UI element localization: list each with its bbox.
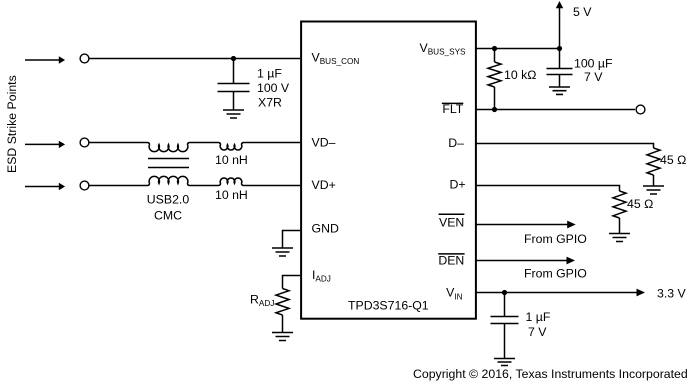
- inductor: CMC winding top: [147, 143, 190, 152]
- wire: R2 lower lead: [653, 175, 655, 186]
- svg-text:From GPIO: From GPIO: [524, 232, 587, 246]
- svg-text:100 V: 100 V: [257, 81, 290, 95]
- capacitor C3 1uF 7V: [491, 317, 519, 324]
- arrow: ESD strike arrow 2: [25, 141, 65, 148]
- node: strike point circle 1: [80, 54, 89, 63]
- wire: C3 upper lead: [504, 293, 506, 317]
- wire: L1 to VD- pin: [244, 142, 300, 144]
- wire: D+ line: [476, 186, 620, 192]
- svg-text:FLT: FLT: [442, 102, 463, 116]
- junction: C1 tap on VBUS_CON: [231, 56, 236, 61]
- svg-text:10 kΩ: 10 kΩ: [504, 68, 536, 82]
- ground: below C3: [494, 359, 515, 366]
- ground: below C2: [549, 87, 570, 94]
- arrow: ESD strike arrow 3: [25, 183, 65, 190]
- node: strike point circle 2: [80, 138, 89, 147]
- ground: below R3: [609, 234, 630, 242]
- arrow: VEN from GPIO: [476, 221, 576, 229]
- wire: VD- to CMC: [90, 142, 148, 144]
- svg-text:VD–: VD–: [312, 136, 336, 150]
- wire: C2 lower lead: [559, 75, 561, 88]
- svg-text:CMC: CMC: [154, 209, 182, 223]
- wire: D- line: [476, 144, 654, 149]
- svg-text:DEN: DEN: [438, 253, 464, 267]
- svg-text:GND: GND: [312, 222, 339, 236]
- wire+arrow: VIN to 3.3V: [476, 289, 645, 297]
- svg-text:D–: D–: [448, 136, 464, 150]
- svg-text:D+: D+: [449, 177, 465, 191]
- svg-text:10 nH: 10 nH: [215, 153, 248, 167]
- resistor R3 45 Ohm: [613, 191, 626, 218]
- svg-text:45 Ω: 45 Ω: [660, 153, 686, 167]
- wire: FLT line: [476, 109, 635, 111]
- wire: C2 upper lead: [559, 49, 561, 69]
- resistor R2 45 Ohm: [647, 148, 660, 175]
- svg-text:Copyright © 2016, Texas Instru: Copyright © 2016, Texas Instruments Inco…: [413, 367, 688, 381]
- inductor: CMC winding bottom: [147, 176, 190, 185]
- wire: IADJ pin lead: [283, 276, 301, 289]
- arrow: DEN from GPIO: [476, 257, 575, 265]
- svg-text:USB2.0: USB2.0: [147, 193, 190, 207]
- svg-text:100 µF: 100 µF: [574, 57, 613, 71]
- wire: CMC to L2: [190, 185, 218, 187]
- svg-text:X7R: X7R: [258, 96, 282, 110]
- wire: R1 to FLT line: [494, 87, 496, 110]
- wire: CMC to L1: [190, 142, 218, 144]
- svg-text:TPD3S716-Q1: TPD3S716-Q1: [348, 299, 429, 313]
- svg-text:1 µF: 1 µF: [257, 67, 282, 81]
- svg-text:45 Ω: 45 Ω: [627, 197, 653, 211]
- ground: below RADJ: [272, 333, 293, 341]
- node: FLT output circle: [636, 105, 645, 114]
- junction: 5V/C2 tap: [557, 46, 562, 51]
- svg-text:VEN: VEN: [439, 216, 464, 230]
- arrow: ESD strike arrow 1: [25, 56, 65, 63]
- ground: below R2: [643, 186, 664, 194]
- power: 5 V arrow: [556, 1, 563, 49]
- junction: R1 top tap: [492, 46, 497, 51]
- junction: R1 bottom on FLT: [492, 107, 497, 112]
- svg-text:10 nH: 10 nH: [215, 188, 248, 202]
- wire: VBUS_SYS line: [476, 48, 560, 50]
- ground: below C1: [223, 110, 244, 118]
- inductor L1 10 nH: [218, 143, 244, 150]
- op-amp/IC U1 TPD3S716-Q1 box: [301, 22, 476, 319]
- wire: L2 to VD+ pin: [244, 185, 300, 187]
- junction: C3 tap on VIN: [502, 290, 507, 295]
- inductor L2 10 nH: [218, 178, 244, 185]
- svg-text:From GPIO: From GPIO: [524, 267, 587, 281]
- wire: VD+ to CMC: [90, 185, 148, 187]
- wire: R1 body lead: [494, 49, 496, 63]
- wire: R3 lower lead: [619, 218, 621, 234]
- wire: C1 lower lead: [233, 92, 235, 111]
- svg-text:7 V: 7 V: [528, 325, 547, 339]
- svg-text:5 V: 5 V: [573, 5, 592, 19]
- capacitor C1 1uF 100V X7R: [218, 84, 250, 92]
- svg-text:1 µF: 1 µF: [526, 310, 551, 324]
- svg-text:ESD Strike Points: ESD Strike Points: [5, 75, 19, 173]
- resistor R1 10 kOhm: [488, 62, 501, 87]
- resistor RADJ: [276, 289, 289, 316]
- wire: GND pin lead: [283, 231, 301, 249]
- node: strike point circle 3: [80, 181, 89, 190]
- capacitor C2 100uF 7V: [547, 69, 573, 75]
- svg-text:7 V: 7 V: [584, 70, 603, 84]
- core: CMC core bars: [148, 159, 189, 168]
- ground: GND pin: [272, 248, 293, 256]
- svg-text:3.3 V: 3.3 V: [657, 287, 687, 301]
- wire: RADJ lower lead: [282, 315, 284, 333]
- wire: VBUS_CON line: [90, 58, 301, 60]
- wire: C3 lower lead: [504, 324, 506, 359]
- svg-text:VD+: VD+: [312, 178, 336, 192]
- wire: C1 upper lead: [233, 59, 235, 84]
